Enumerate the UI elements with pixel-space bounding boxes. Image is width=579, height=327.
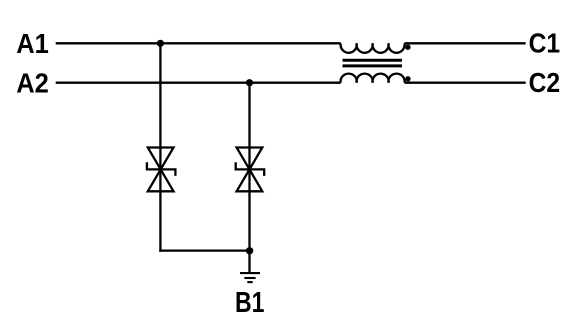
TVS diode D2 (bidirectional)	[236, 148, 265, 192]
svg-text:C1: C1	[529, 28, 561, 59]
wire A1 horizontal	[56, 42, 341, 44]
svg-text:A2: A2	[16, 68, 49, 99]
choke winding L2 (A2 to C2, secondary)	[341, 74, 405, 83]
wire ground stub	[248, 251, 250, 273]
junction dot on A2	[246, 79, 253, 86]
wire C2 horizontal	[405, 82, 526, 84]
choke winding L1 (A1 to C1, primary)	[341, 43, 405, 53]
polarity dot L2	[405, 76, 410, 81]
polarity dot L1	[405, 45, 410, 50]
svg-text:C2: C2	[529, 67, 561, 98]
wire bottom rail horizontal	[159, 249, 249, 251]
wire vertical from A2 junction down to bottom rail	[248, 83, 250, 251]
transformer core	[343, 60, 403, 66]
TVS diode D1 (bidirectional)	[147, 148, 176, 192]
svg-text:B1: B1	[235, 287, 265, 319]
junction dot at ground node	[246, 247, 253, 254]
wire vertical from A1 junction down to bottom rail	[159, 43, 161, 250]
svg-text:A1: A1	[16, 28, 49, 59]
wire A2 horizontal	[56, 82, 341, 84]
wire C1 horizontal	[405, 42, 526, 44]
ground symbol B1	[240, 273, 260, 282]
junction dot on A1	[157, 40, 164, 47]
